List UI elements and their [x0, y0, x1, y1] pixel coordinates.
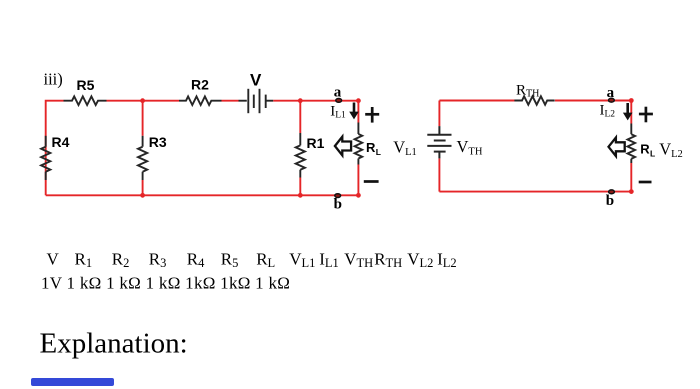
svg-text:R4: R4 [52, 134, 70, 150]
svg-text:IL2: IL2 [600, 103, 616, 120]
svg-text:R2: R2 [191, 77, 209, 93]
resistor R5 [64, 77, 107, 105]
current label IL2 [600, 103, 616, 120]
battery V [239, 71, 274, 114]
resistor RTH [514, 82, 554, 104]
svg-text:VL1: VL1 [393, 137, 417, 158]
node a (left circuit) [334, 84, 342, 102]
svg-text:V: V [47, 249, 60, 268]
arrow IL2 (down) [623, 103, 633, 120]
svg-text:Explanation:: Explanation: [40, 328, 188, 360]
svg-text:VL2: VL2 [407, 249, 433, 270]
junction dot (top-right corner) [356, 98, 361, 103]
footer blue bar [31, 378, 114, 386]
svg-text:R3: R3 [149, 134, 167, 150]
value table header row [47, 249, 457, 270]
svg-text:RTH: RTH [516, 82, 539, 99]
svg-text:IL1: IL1 [330, 103, 346, 120]
arrow IL1 (down) [349, 103, 359, 120]
svg-text:VTH: VTH [344, 249, 373, 270]
svg-text:IL1: IL1 [319, 249, 339, 270]
minus sign (left circuit) [364, 180, 379, 183]
svg-text:a: a [607, 85, 615, 101]
svg-text:b: b [334, 197, 342, 213]
svg-text:RTH: RTH [374, 249, 402, 270]
wire right-circuit right edge (RL branch) [630, 101, 632, 192]
block arrow at RL (right circuit) [609, 138, 625, 157]
resistor R4 [41, 134, 70, 180]
svg-text:R1: R1 [75, 249, 93, 270]
svg-text:R5: R5 [221, 249, 239, 270]
svg-text:R1: R1 [307, 135, 325, 151]
svg-text:L: L [650, 148, 655, 158]
wire left-circuit right edge (RL branch) [357, 101, 359, 196]
node a (right circuit) [607, 85, 615, 102]
svg-text:IL2: IL2 [437, 249, 457, 270]
resistor RL (left circuit) [355, 123, 381, 165]
svg-text:R2: R2 [112, 249, 130, 270]
junction dot (R3 top) [140, 98, 145, 103]
svg-text:R3: R3 [149, 249, 167, 270]
label iii) [44, 70, 63, 89]
svg-text:R4: R4 [187, 249, 205, 270]
junction dot (R1 top) [298, 98, 303, 103]
value table data row [41, 274, 290, 293]
block arrow at RL (left circuit) [335, 137, 351, 156]
junction dot (right circuit bottom-right corner) [629, 189, 634, 194]
wire left-circuit top rail [46, 101, 359, 196]
voltage label VL2 [659, 140, 683, 161]
svg-text:1V 1 kΩ 1 kΩ 1 kΩ 1kΩ 1kΩ 1 kΩ: 1V 1 kΩ 1 kΩ 1 kΩ 1kΩ 1kΩ 1 kΩ [41, 274, 290, 293]
minus sign (right circuit) [639, 181, 652, 184]
wire right-circuit top rail [439, 100, 631, 102]
svg-text:RL: RL [256, 249, 275, 270]
svg-text:R5: R5 [77, 77, 95, 93]
svg-text:V: V [250, 71, 262, 90]
wire left-circuit bottom rail [46, 194, 359, 196]
wire right-circuit left edge [438, 101, 440, 192]
plus sign (left circuit) [365, 107, 379, 123]
svg-text:L: L [376, 147, 381, 157]
voltage label VL1 [393, 137, 417, 158]
svg-text:R: R [366, 140, 376, 155]
junction dot (R3 bottom) [140, 193, 145, 198]
heading Explanation [40, 328, 188, 360]
node b (right circuit) [606, 190, 615, 209]
wire R3 branch [142, 101, 144, 196]
svg-text:VTH: VTH [457, 137, 483, 158]
junction dot (right circuit top-right corner) [629, 98, 634, 103]
resistor R2 [179, 77, 222, 105]
svg-text:a: a [334, 84, 342, 100]
wire R1 branch [299, 101, 301, 196]
battery VTH [427, 126, 483, 158]
svg-text:VL1: VL1 [289, 249, 315, 270]
resistor R3 [138, 134, 167, 180]
svg-text:VL2: VL2 [659, 140, 683, 161]
svg-text:b: b [606, 193, 614, 209]
resistor R1 [296, 133, 325, 178]
node b (left circuit) [334, 194, 342, 213]
junction dot (bottom-right corner) [356, 193, 361, 198]
svg-text:iii): iii) [44, 70, 63, 89]
resistor RL (right circuit) [628, 124, 656, 164]
current label IL1 [330, 103, 346, 120]
plus sign (right circuit) [639, 107, 653, 123]
junction dot (R1 bottom) [298, 193, 303, 198]
wire right-circuit bottom rail [439, 191, 631, 193]
svg-text:R: R [640, 141, 650, 156]
